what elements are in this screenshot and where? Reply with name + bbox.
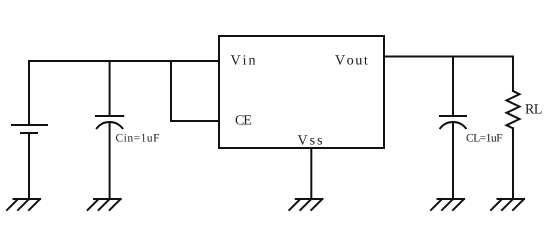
wire CE branch horizontal to IC bbox=[171, 120, 219, 122]
pin label Vss bbox=[298, 135, 322, 144]
wire Cin vertical top bbox=[109, 61, 111, 116]
battery B1 short plate bbox=[21, 132, 37, 134]
battery B1 long plate bbox=[12, 124, 47, 126]
wire battery vertical drop bbox=[28, 61, 30, 125]
wire top-left horizontal (battery to IC Vin) bbox=[29, 60, 219, 62]
pin label Vout bbox=[335, 55, 368, 64]
ground (battery) bbox=[7, 199, 40, 210]
capacitor CL top plate bbox=[440, 115, 466, 117]
wire Vss pin to ground bbox=[310, 148, 312, 199]
wire RL bottom lead to ground bbox=[512, 128, 514, 199]
pin label CE bbox=[236, 115, 252, 124]
capacitor Cin top plate bbox=[96, 115, 123, 117]
ground (Cin) bbox=[88, 199, 121, 210]
wire Vout horizontal bbox=[384, 56, 513, 58]
value label RL bbox=[525, 104, 541, 113]
wire RL vertical top lead bbox=[512, 57, 514, 92]
ground (CL) bbox=[431, 199, 464, 210]
capacitor Cin curved plate bbox=[97, 122, 123, 128]
wire CL vertical drop bbox=[452, 57, 454, 117]
wire battery to ground bbox=[28, 133, 30, 199]
pin label Vin bbox=[231, 55, 256, 64]
resistor RL zigzag bbox=[507, 91, 520, 128]
ground (RL) bbox=[491, 199, 524, 210]
wire CE branch vertical bbox=[170, 61, 172, 121]
wire CL to ground bbox=[452, 122, 454, 199]
value label Cin=1uF bbox=[116, 134, 159, 142]
value label CL=1uF bbox=[467, 134, 503, 142]
ground (Vss) bbox=[289, 199, 322, 210]
wire Cin to ground bbox=[109, 122, 111, 199]
capacitor CL curved plate bbox=[440, 122, 466, 128]
IC U1 (voltage regulator body) bbox=[219, 36, 384, 148]
